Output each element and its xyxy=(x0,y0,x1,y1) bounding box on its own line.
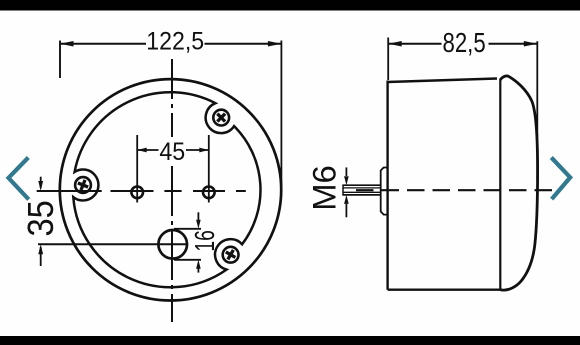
svg-text:122,5: 122,5 xyxy=(146,28,204,56)
outer circle (lamp rim) xyxy=(60,79,281,300)
phillips cross screw UR xyxy=(213,110,229,126)
screw L ring xyxy=(75,177,91,193)
vertical centerline (upper) xyxy=(171,59,173,137)
carousel chevron right xyxy=(551,158,570,200)
top edge xyxy=(388,79,497,83)
mounting hole left xyxy=(131,187,143,199)
phillips cross screw BR xyxy=(223,247,238,262)
45 extension line right (through hole) xyxy=(208,135,210,203)
side view body xyxy=(343,76,556,290)
svg-text:45: 45 xyxy=(159,138,185,166)
45 extension line left (through hole) xyxy=(136,135,138,203)
dimension 122,5 xyxy=(60,41,281,191)
svg-text:82,5: 82,5 xyxy=(442,28,485,59)
top letterbox bar xyxy=(0,0,580,11)
phillips cross screw L xyxy=(76,178,90,192)
lens outline xyxy=(500,76,537,290)
mounting hole right xyxy=(203,187,215,199)
M6 threaded stud xyxy=(343,184,381,186)
dimension 16 xyxy=(197,212,199,272)
vertical centerline (lower) xyxy=(171,166,173,322)
screw BR ring xyxy=(223,247,239,263)
svg-text:M6: M6 xyxy=(307,165,343,211)
dimension 45 xyxy=(137,149,209,151)
inner plate contour with screw notches xyxy=(73,92,260,287)
horizontal centerline segments xyxy=(37,190,102,192)
rear edge xyxy=(386,81,388,290)
lens joint line xyxy=(499,79,501,290)
35 extension line through hole-16 center xyxy=(38,243,188,245)
dimension 82,5 xyxy=(388,38,537,181)
svg-text:35: 35 xyxy=(21,200,61,236)
side view dashed centerline xyxy=(356,189,556,191)
dimension 35 xyxy=(40,177,42,266)
svg-text:16: 16 xyxy=(190,230,221,251)
hole 16 xyxy=(158,230,187,259)
dimension M6 xyxy=(345,167,347,217)
mounting flange xyxy=(381,168,387,215)
screw UR ring xyxy=(213,110,229,126)
bottom edge xyxy=(388,289,501,291)
carousel chevron left xyxy=(9,158,29,200)
16 extension lines xyxy=(174,228,201,230)
bottom letterbox bar xyxy=(0,336,580,345)
